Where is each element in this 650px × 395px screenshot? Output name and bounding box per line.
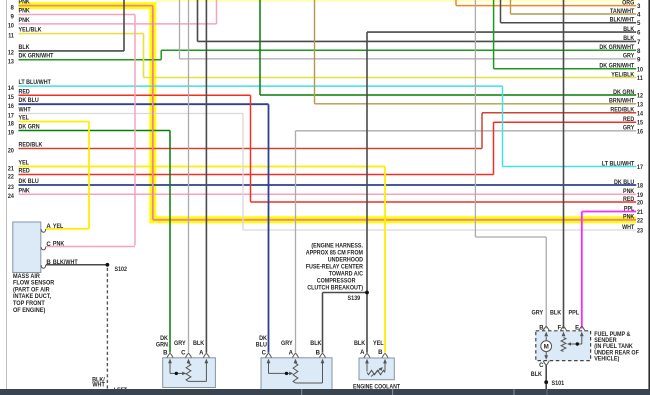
svg-text:PNK: PNK — [19, 187, 31, 194]
svg-text:DK BLU: DK BLU — [19, 178, 40, 185]
svg-text:BLK/WHT: BLK/WHT — [53, 259, 78, 266]
svg-text:B: B — [316, 350, 321, 356]
svg-text:WHT: WHT — [19, 107, 31, 114]
svg-text:DK BLU: DK BLU — [614, 179, 635, 186]
svg-text:COMPRESSOR: COMPRESSOR — [317, 277, 356, 284]
svg-text:F: F — [558, 325, 562, 331]
svg-text:C: C — [46, 241, 51, 248]
svg-text:18: 18 — [637, 183, 644, 190]
svg-text:PPL: PPL — [624, 205, 635, 212]
svg-text:PNK: PNK — [623, 188, 635, 195]
svg-text:GRN: GRN — [156, 341, 169, 348]
svg-text:BLK: BLK — [193, 340, 205, 347]
svg-text:(ENGINE HARNESS.: (ENGINE HARNESS. — [311, 242, 363, 249]
svg-text:22: 22 — [637, 217, 644, 224]
svg-text:TOWARD A/C: TOWARD A/C — [329, 270, 364, 277]
svg-text:16: 16 — [637, 128, 644, 135]
svg-text:FUSE-RELAY CENTER: FUSE-RELAY CENTER — [306, 263, 364, 270]
svg-text:S101: S101 — [552, 380, 565, 387]
svg-text:RED/BLK: RED/BLK — [610, 107, 634, 114]
svg-text:RED: RED — [19, 168, 31, 175]
svg-text:24: 24 — [8, 193, 15, 200]
svg-text:BLK/WHT: BLK/WHT — [610, 17, 635, 24]
svg-text:YEL: YEL — [19, 115, 30, 122]
svg-text:C: C — [539, 363, 544, 369]
svg-text:PNK: PNK — [19, 0, 31, 6]
svg-text:A: A — [46, 223, 51, 230]
svg-text:VEHICLE): VEHICLE) — [594, 355, 619, 362]
svg-text:12: 12 — [637, 93, 644, 100]
svg-text:BLK: BLK — [310, 340, 322, 347]
svg-text:14: 14 — [637, 110, 644, 117]
svg-text:17: 17 — [637, 164, 644, 171]
svg-text:21: 21 — [637, 209, 644, 216]
svg-text:17: 17 — [8, 112, 15, 119]
svg-text:19: 19 — [637, 192, 644, 199]
svg-text:BLK: BLK — [550, 309, 562, 316]
svg-text:PNK: PNK — [53, 241, 65, 248]
svg-text:15: 15 — [8, 94, 15, 101]
svg-text:DK GRN: DK GRN — [613, 89, 634, 96]
svg-text:YEL/BLK: YEL/BLK — [611, 71, 635, 78]
svg-text:RED: RED — [623, 116, 635, 123]
svg-text:10: 10 — [8, 23, 15, 30]
svg-text:GRY: GRY — [532, 309, 544, 316]
svg-text:BLK: BLK — [19, 44, 31, 51]
svg-text:PPL: PPL — [569, 309, 580, 316]
svg-text:RED: RED — [623, 196, 635, 203]
svg-text:DK GRN/WHT: DK GRN/WHT — [599, 63, 634, 70]
svg-text:BLK: BLK — [354, 340, 366, 347]
svg-text:B: B — [163, 350, 168, 356]
svg-text:BRN/WHT: BRN/WHT — [609, 98, 635, 105]
svg-text:PNK: PNK — [19, 8, 31, 15]
svg-text:C: C — [262, 350, 267, 356]
svg-text:11: 11 — [8, 32, 14, 39]
svg-text:APPROX 85 CM FROM: APPROX 85 CM FROM — [306, 249, 363, 256]
svg-text:ORG: ORG — [622, 0, 634, 6]
svg-text:16: 16 — [8, 103, 15, 110]
svg-text:UNDERHOOD: UNDERHOOD — [328, 256, 364, 263]
svg-text:GRY: GRY — [281, 340, 293, 347]
svg-text:M: M — [544, 344, 549, 351]
svg-text:S139: S139 — [348, 295, 361, 302]
svg-text:DK GRN/WHT: DK GRN/WHT — [599, 44, 634, 51]
svg-text:23: 23 — [637, 228, 644, 235]
svg-text:E: E — [575, 325, 579, 331]
svg-text:23: 23 — [8, 184, 15, 191]
svg-text:BLK: BLK — [531, 371, 543, 378]
svg-text:B: B — [46, 259, 51, 266]
svg-text:20: 20 — [637, 200, 644, 207]
svg-text:RED/BLK: RED/BLK — [19, 142, 43, 149]
svg-text:BLU: BLU — [256, 341, 268, 348]
svg-text:18: 18 — [8, 120, 15, 127]
svg-text:TAN/WHT: TAN/WHT — [610, 8, 635, 15]
svg-text:22: 22 — [8, 173, 15, 180]
svg-text:PNK: PNK — [623, 214, 635, 221]
svg-text:15: 15 — [637, 120, 644, 127]
svg-text:DK GRN/WHT: DK GRN/WHT — [19, 53, 54, 60]
svg-text:13: 13 — [8, 59, 15, 66]
svg-text:21: 21 — [8, 165, 15, 172]
svg-text:GRY: GRY — [623, 53, 634, 60]
svg-text:A: A — [360, 350, 365, 356]
svg-text:12: 12 — [8, 50, 15, 57]
svg-text:PNK: PNK — [19, 17, 31, 24]
svg-text:10: 10 — [637, 66, 644, 73]
svg-text:A: A — [289, 350, 294, 356]
svg-text:LT BLU/WHT: LT BLU/WHT — [19, 79, 52, 86]
svg-text:WHT: WHT — [622, 224, 634, 231]
svg-text:YEL: YEL — [373, 340, 384, 347]
svg-text:DK BLU: DK BLU — [19, 97, 40, 104]
svg-text:19: 19 — [8, 129, 15, 136]
svg-text:11: 11 — [637, 75, 643, 82]
svg-text:20: 20 — [8, 147, 15, 154]
svg-text:BLK: BLK — [623, 26, 635, 33]
svg-text:B: B — [378, 350, 383, 356]
svg-text:BLK: BLK — [623, 35, 635, 42]
svg-text:GRY: GRY — [174, 340, 186, 347]
svg-text:C: C — [181, 350, 186, 356]
svg-text:YEL: YEL — [53, 223, 64, 230]
svg-text:A: A — [199, 350, 204, 356]
svg-text:DK GRN: DK GRN — [19, 124, 40, 131]
svg-text:S102: S102 — [115, 266, 128, 273]
svg-text:RED: RED — [19, 88, 31, 95]
svg-text:OF ENGINE): OF ENGINE) — [13, 307, 45, 314]
svg-text:B: B — [539, 325, 544, 331]
svg-text:LT BLU/WHT: LT BLU/WHT — [602, 160, 635, 167]
svg-text:13: 13 — [637, 101, 644, 108]
svg-text:YEL/BLK: YEL/BLK — [19, 27, 43, 34]
svg-text:CLUTCH BREAKOUT): CLUTCH BREAKOUT) — [307, 284, 363, 291]
svg-text:14: 14 — [8, 85, 15, 92]
svg-text:GRY: GRY — [623, 125, 634, 132]
svg-text:WHT: WHT — [92, 382, 105, 389]
svg-text:YEL: YEL — [19, 160, 30, 167]
